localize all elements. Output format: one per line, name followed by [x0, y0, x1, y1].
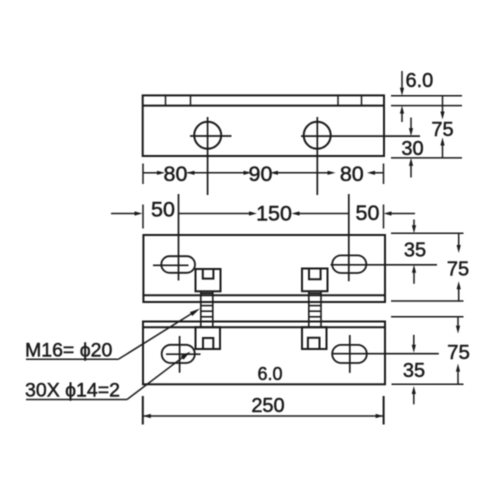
- arrow up 75 bottom: [440, 138, 444, 146]
- svg-text:75: 75: [447, 259, 469, 281]
- lower right nut notch: [308, 338, 320, 349]
- dimension 250: [143, 396, 384, 425]
- ext line plate bottom: [391, 157, 462, 159]
- 35 dim upper stem: [413, 220, 415, 228]
- middle plate: [143, 235, 437, 302]
- right hole horizontal centerline / leader to 30 dim: [301, 135, 420, 137]
- right side dims: middle plate: [391, 220, 464, 302]
- middle plate slot left: [161, 256, 195, 273]
- dim 150 line b: [299, 213, 349, 215]
- right hole vertical centerline: [316, 117, 318, 195]
- flange tick 3: [337, 95, 339, 105]
- right side dims: bottom plate: [391, 317, 464, 405]
- arrow up 75 mid: [457, 281, 461, 289]
- ext line top edge: [391, 95, 462, 97]
- hole circle left: [194, 122, 221, 149]
- svg-text:6.0: 6.0: [406, 70, 434, 92]
- bottom plate slot right: [332, 345, 367, 363]
- flange tick 4: [361, 95, 363, 105]
- label M16 underline: [26, 358, 118, 360]
- arrow left at 80R: [367, 171, 375, 175]
- svg-text:M16= ϕ20: M16= ϕ20: [25, 340, 113, 362]
- 75 dim line lower: [442, 144, 444, 158]
- 250 left tick: [142, 396, 144, 425]
- lower left nut notch: [203, 338, 213, 349]
- 75 dim line upper: [442, 96, 444, 113]
- bottom plate: [143, 322, 439, 385]
- svg-text:35: 35: [404, 240, 426, 262]
- row2 outside leader right: [391, 213, 416, 215]
- left hole horizontal centerline: [190, 135, 232, 137]
- clamp nut lower left: [196, 327, 221, 349]
- label M16 leader: [118, 310, 197, 359]
- arrow down to top edge (6.0): [400, 88, 404, 96]
- svg-text:90: 90: [249, 162, 273, 186]
- bottom right slot vertical centerline: [349, 335, 351, 373]
- flange tick 2: [190, 95, 192, 105]
- right side dims: top plate: [391, 71, 462, 178]
- middle left slot horizontal centerline: [153, 264, 189, 266]
- middle plate lip line: [143, 294, 385, 296]
- svg-text:6.0: 6.0: [257, 364, 282, 384]
- clamp nut upper right: [302, 269, 328, 292]
- 75 dim line upper: [458, 233, 460, 246]
- top plate outline: [143, 95, 384, 156]
- arrow up to plate bottom (30): [409, 158, 413, 166]
- row1 right tick: [383, 164, 385, 185]
- 250 right tick: [383, 396, 385, 425]
- row2 outside leader left: [111, 213, 136, 215]
- flange tick 1: [165, 95, 167, 105]
- svg-text:35: 35: [403, 360, 425, 382]
- arrow up to slot centerline (35): [412, 265, 416, 273]
- threaded stud right: [309, 291, 321, 327]
- 6.0 dim upper stem: [401, 71, 403, 90]
- arrow down to middle top (35): [412, 225, 416, 233]
- 250 dim line: [143, 415, 384, 417]
- arrow down to slot centerline (35): [412, 345, 416, 353]
- dimension row 50/150/50: [111, 194, 415, 281]
- svg-text:50: 50: [151, 198, 175, 222]
- arrow right at 90: [244, 171, 252, 175]
- arrow down to centerline (30): [409, 128, 413, 136]
- bottom left slot horizontal centerline: [166, 353, 201, 355]
- dim 90 line a: [208, 172, 245, 174]
- upper right nut notch: [309, 269, 321, 280]
- svg-text:50: 50: [356, 201, 380, 225]
- arrow left at 80L: [187, 171, 195, 175]
- bottom plate flange line: [143, 326, 385, 328]
- dim 80 left line a: [143, 172, 158, 174]
- svg-text:150: 150: [256, 202, 292, 226]
- row1 left tick: [142, 164, 144, 185]
- bottom plate slot left: [162, 345, 195, 363]
- ext line flange bottom: [391, 105, 462, 107]
- dimension row 80/90/80: [143, 164, 384, 185]
- dim 150 line a: [179, 213, 251, 215]
- middle plate outline: [143, 235, 385, 302]
- arrow left at 150: [292, 211, 300, 215]
- middle plate slot right: [332, 255, 366, 273]
- arrow down 75 bottom: [456, 326, 460, 334]
- clamp nut upper left: [196, 269, 221, 291]
- 35 dim lower stem: [413, 393, 415, 405]
- top plate flange line: [143, 105, 384, 107]
- 75 dim line lower: [458, 288, 460, 302]
- row2 left tick: [142, 205, 144, 229]
- 30 dim upper stem: [410, 118, 412, 131]
- ext line bottom plate bottom: [392, 383, 464, 385]
- arrow left at 250: [143, 414, 151, 418]
- bottom right slot horizontal centerline / leader to 35 dim: [332, 353, 439, 355]
- row2 extension line left slot: [178, 194, 180, 281]
- hole circle right: [304, 122, 331, 149]
- row2 right tick: [383, 205, 385, 229]
- 30 dim lower stem: [410, 164, 412, 178]
- label 30X14 leader: [127, 353, 188, 399]
- 35 dim upper stem: [413, 335, 415, 346]
- upper left nut notch: [203, 269, 214, 279]
- left hole vertical centerline: [207, 117, 209, 195]
- arrow up to plate bottom (35): [412, 386, 416, 394]
- label 30X14 underline: [26, 399, 127, 401]
- dim 80 right line a: [317, 172, 328, 174]
- middle right slot horizontal centerline / leader to 35 dim: [331, 264, 438, 266]
- arrow at left tick: [135, 211, 143, 215]
- 6.0 dim lower stem: [401, 111, 403, 122]
- 75 dim line upper: [457, 317, 459, 327]
- clamp nut lower right: [302, 327, 327, 349]
- svg-text:250: 250: [251, 395, 284, 417]
- arrow right at 250: [376, 414, 384, 418]
- ext line bottom plate top: [391, 316, 464, 318]
- dim 80 right line b: [374, 172, 384, 174]
- ext line middle bottom: [391, 300, 464, 302]
- arrow left at 90: [270, 171, 278, 175]
- arrow down 75 mid: [457, 245, 461, 253]
- bottom left slot vertical centerline: [179, 336, 181, 373]
- arrow right at 80R: [328, 171, 336, 175]
- svg-text:80: 80: [340, 162, 364, 186]
- row2 extension line right slot: [348, 194, 350, 281]
- svg-text:30: 30: [401, 138, 423, 160]
- svg-text:75: 75: [447, 341, 470, 364]
- arrow up 75 bottom: [456, 364, 460, 372]
- dim 90 line b: [277, 172, 317, 174]
- label 30X14 leader arrow: [181, 352, 191, 360]
- svg-text:80: 80: [164, 162, 188, 186]
- dim 80 left line b: [188, 172, 208, 174]
- svg-text:75: 75: [431, 119, 453, 141]
- arrow down 75 top: [440, 112, 444, 120]
- arrow at right tick: [384, 211, 392, 215]
- 75 dim line lower: [457, 370, 459, 384]
- svg-text:30X ϕ14=2: 30X ϕ14=2: [25, 380, 120, 402]
- arrow right at 150: [249, 211, 257, 215]
- arrow right at 80L: [157, 171, 165, 175]
- bottom plate outline: [143, 322, 385, 385]
- arrow up to flange line (6.0): [400, 106, 404, 114]
- 35 dim lower stem: [413, 271, 415, 284]
- threaded stud left: [201, 291, 213, 327]
- ext line middle top: [391, 232, 464, 234]
- label M16 leader arrow: [190, 309, 200, 317]
